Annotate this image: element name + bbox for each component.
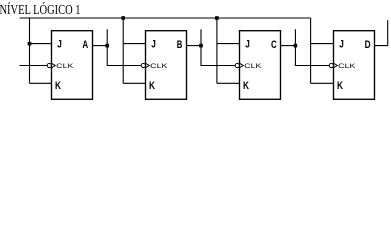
inverter bubble FF4 CLK [329, 63, 333, 67]
svg-text:CLK: CLK [150, 63, 168, 70]
svg-text:C: C [271, 39, 277, 51]
wire rail drop FF2 (J/K feed) [122, 18, 124, 83]
wire J input FF3 [217, 43, 240, 45]
svg-text:K: K [149, 80, 155, 92]
svg-text:A: A [82, 39, 88, 51]
inverter bubble FF1 CLK [47, 63, 51, 67]
net NIVEL LOGICO 1 rail wire [20, 17, 311, 19]
wire rail drop FF4 (J/K feed) [310, 18, 312, 83]
clock edge triangle FF1 [52, 63, 56, 67]
svg-text:D: D [365, 39, 371, 51]
clock edge triangle FF2 [146, 63, 150, 67]
wire J input FF1 [30, 43, 52, 45]
svg-text:B: B [177, 39, 183, 51]
wire J input FF4 [311, 43, 334, 45]
clock edge triangle FF4 [334, 63, 338, 67]
wire K input FF2 [123, 82, 145, 84]
junction dot node A [105, 44, 109, 48]
junction dot node B [199, 44, 203, 48]
svg-text:CLK: CLK [338, 63, 356, 70]
flip-flop FF3 body [240, 31, 281, 100]
inverter bubble FF2 CLK [141, 63, 145, 67]
wire node D: FF4 Q output [375, 20, 388, 45]
junction dot FF1 J branch [28, 42, 32, 46]
wire node A: FF1 Q out to FF2 CLK [93, 45, 108, 47]
svg-text:CLK: CLK [244, 63, 262, 70]
svg-text:NÍVEL LÓGICO 1: NÍVEL LÓGICO 1 [0, 1, 81, 18]
svg-text:J: J [245, 39, 250, 51]
wire K input FF3 [217, 82, 240, 84]
inverter bubble FF3 CLK [235, 63, 239, 67]
flip-flop FF4 body [334, 31, 375, 100]
junction dot rail to FF3 [215, 16, 219, 20]
flip-flop FF2 body [146, 31, 187, 100]
junction dot rail to FF2 [121, 16, 125, 20]
flip-flop FF1 body [52, 31, 93, 100]
wire rail drop FF1 (J/K feed) [29, 18, 31, 83]
svg-text:J: J [339, 39, 344, 51]
svg-text:K: K [55, 80, 61, 92]
svg-text:K: K [337, 80, 343, 92]
wire node B: FF2 Q out to FF3 CLK [187, 45, 202, 47]
svg-text:K: K [243, 80, 249, 92]
wire J input FF2 [123, 43, 145, 45]
wire K input FF1 [30, 82, 52, 84]
junction dot node C [294, 44, 298, 48]
wire clock input to FF1 CLK [20, 65, 48, 67]
wire K input FF4 [311, 82, 334, 84]
clock edge triangle FF3 [240, 63, 244, 67]
wire node C: FF3 Q out to FF4 CLK [281, 45, 296, 47]
svg-text:J: J [151, 39, 156, 51]
wire rail drop FF3 (J/K feed) [216, 18, 218, 83]
svg-text:CLK: CLK [56, 63, 74, 70]
svg-text:J: J [57, 39, 62, 51]
